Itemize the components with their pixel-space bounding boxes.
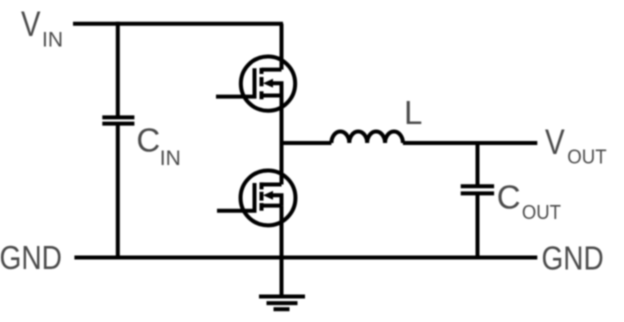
ground symbol [259, 297, 305, 310]
label V_IN [21, 5, 63, 51]
wire: right branch lower (C_OUT to GND rail) [476, 193, 480, 257]
svg-text:OUT: OUT [522, 202, 561, 224]
wire: switch node to inductor [282, 141, 332, 145]
svg-text:V: V [21, 5, 41, 44]
label C_IN [136, 122, 180, 171]
wire: GND bottom rail [74, 256, 537, 260]
wire: Q1 source to switch node to Q2 drain [280, 96, 284, 185]
capacitor C_IN [102, 117, 134, 123]
svg-text:IN: IN [42, 28, 63, 51]
capacitor C_OUT [461, 186, 494, 193]
svg-text:C: C [497, 179, 521, 216]
wire: V_IN top rail [73, 22, 283, 26]
wire: left branch upper (V_IN to C_IN) [116, 22, 120, 118]
wire: left branch lower (C_IN to GND rail) [116, 124, 120, 258]
transistor Q1 (high-side MOSFET) [216, 56, 295, 110]
svg-text:GND: GND [542, 239, 604, 276]
svg-text:L: L [404, 94, 422, 131]
wire: Q2 source down to ground stem [280, 206, 284, 297]
svg-text:V: V [545, 123, 565, 162]
svg-text:IN: IN [160, 147, 181, 170]
label V_OUT [545, 123, 607, 168]
wire: Q1 drain from top rail [280, 24, 284, 70]
label C_OUT [497, 179, 561, 225]
inductor L [331, 132, 403, 144]
svg-text:GND: GND [0, 239, 62, 276]
wire: inductor to V_OUT [403, 141, 537, 145]
wire: right branch upper (V_OUT to C_OUT) [476, 141, 480, 186]
svg-text:OUT: OUT [567, 146, 606, 168]
transistor Q2 (low-side MOSFET) [217, 170, 295, 225]
svg-text:C: C [136, 122, 160, 159]
